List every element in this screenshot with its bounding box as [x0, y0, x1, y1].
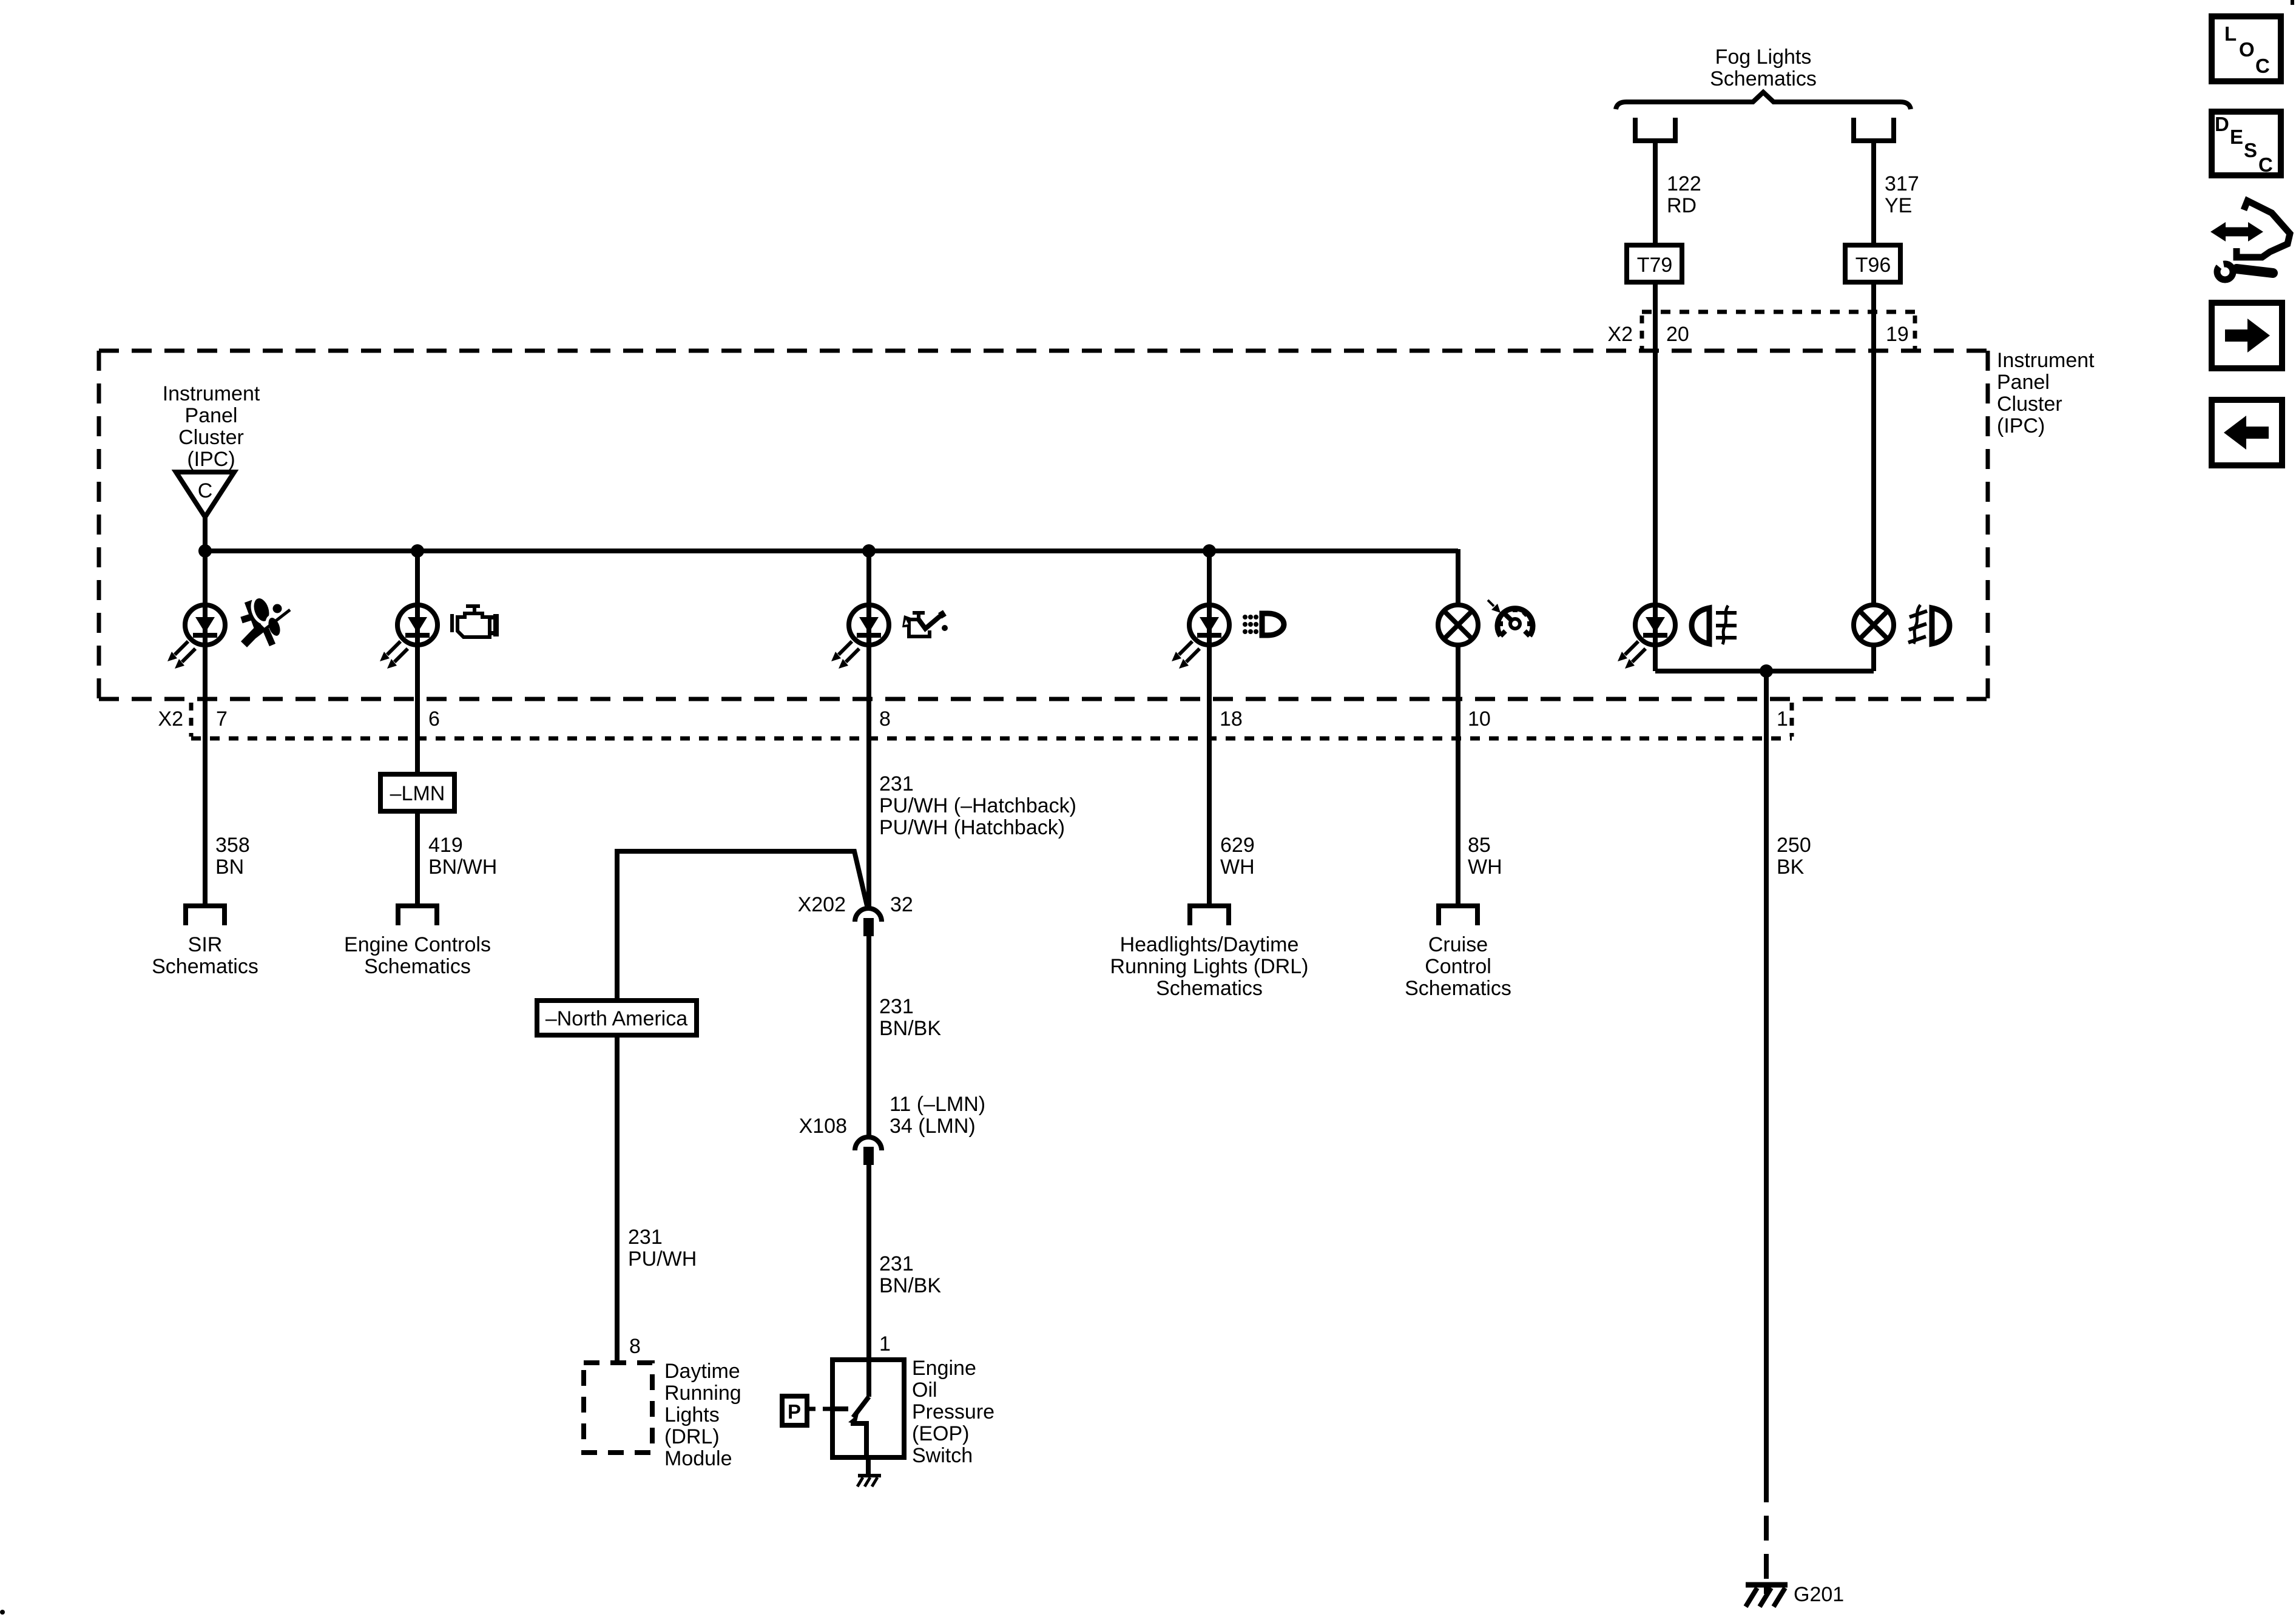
svg-text:Instrument: Instrument — [163, 382, 260, 405]
label 317 YE — [1885, 172, 1919, 217]
svg-text:Cruise: Cruise — [1428, 933, 1488, 956]
label 231 BN/BK (lower) — [879, 1252, 941, 1297]
wire fog lamp right to common node — [1871, 645, 1876, 671]
svg-text:Running Lights (DRL): Running Lights (DRL) — [1110, 955, 1309, 978]
junction node on fog return — [1760, 664, 1773, 678]
branch wire to DRL module (-North America) — [617, 851, 867, 1001]
svg-text:BN/WH: BN/WH — [428, 856, 497, 879]
wire from T79 to fog LED lamp (pin 20) — [1653, 282, 1658, 604]
junction node at SIR lamp — [198, 544, 212, 558]
svg-text:1: 1 — [879, 1332, 891, 1355]
svg-text:C: C — [2255, 55, 2270, 77]
svg-text:Lights: Lights — [664, 1403, 720, 1426]
X2 top strip left tick — [1640, 316, 1644, 349]
svg-text:7: 7 — [216, 707, 228, 731]
svg-text:629: 629 — [1220, 834, 1255, 857]
dashed continuation of ground wire — [1764, 1516, 1769, 1582]
svg-text:Oil: Oil — [912, 1379, 937, 1402]
page speck (bottom left) — [0, 1610, 5, 1615]
svg-text:P: P — [788, 1400, 801, 1423]
splice X108 (crimp) — [855, 1137, 882, 1165]
Instrument Panel Cluster (IPC) dashed box — [99, 351, 1988, 699]
terminal (to fog lights schematics, left) — [1635, 118, 1675, 141]
terminal (to SIR schematics) — [186, 906, 225, 925]
svg-text:11 (–LMN): 11 (–LMN) — [890, 1093, 985, 1116]
X2 bottom strip left tick — [189, 703, 194, 737]
terminal (to engine controls schematics) — [398, 906, 437, 925]
IPC internal bus wire — [205, 549, 1458, 553]
label SIR Schematics — [152, 933, 258, 978]
IPC label (left, inside box) — [163, 382, 260, 471]
label 629 WH — [1220, 834, 1255, 879]
svg-text:8: 8 — [879, 707, 891, 731]
wire 231 BN/BK (X108 to EOP switch) — [866, 1165, 871, 1360]
svg-text:Panel: Panel — [185, 404, 238, 427]
svg-text:231: 231 — [879, 995, 914, 1018]
label 250 BK — [1777, 834, 1811, 879]
svg-text:Fog Lights: Fog Lights — [1715, 46, 1812, 69]
svg-text:X108: X108 — [799, 1115, 847, 1138]
junction node at oil lamp — [862, 544, 876, 558]
headlight icon — [1243, 613, 1284, 635]
brace over fog light branches — [1616, 92, 1911, 109]
X2 bottom strip right tick — [1790, 703, 1794, 737]
junction node at engine lamp — [411, 544, 424, 558]
LOC navigation box — [2212, 16, 2281, 81]
label 122 RD — [1667, 172, 1701, 217]
svg-text:85: 85 — [1468, 834, 1491, 857]
svg-text:WH: WH — [1220, 856, 1255, 879]
ground below EOP switch (chassis) — [857, 1457, 881, 1487]
svg-text:–North America: –North America — [545, 1007, 687, 1030]
svg-text:BN/BK: BN/BK — [879, 1017, 941, 1040]
connector C triangle (IPC internal connector) — [176, 472, 234, 517]
label 231 PU/WH — [628, 1226, 697, 1271]
svg-text:X2: X2 — [1607, 323, 1633, 346]
wire 317 YE — [1871, 143, 1876, 245]
label 85 WH — [1468, 834, 1502, 879]
svg-text:1: 1 — [1777, 707, 1788, 731]
svg-text:Control: Control — [1425, 955, 1491, 978]
svg-text:20: 20 — [1666, 323, 1689, 346]
wire 250 BK down from node through X2 pin 1 — [1764, 671, 1769, 1502]
engine icon — [450, 604, 499, 637]
dashed link P to EOP switch — [807, 1407, 832, 1411]
svg-text:Engine Controls: Engine Controls — [344, 933, 491, 956]
splice box -North America — [537, 1001, 697, 1035]
svg-text:BN: BN — [215, 856, 244, 879]
svg-text:Headlights/Daytime: Headlights/Daytime — [1120, 933, 1299, 956]
fog lamp icon (right, lamp with slanted rays) — [1908, 605, 1950, 644]
engine (MIL) indicator LED lamp — [380, 551, 437, 774]
svg-text:O: O — [2239, 38, 2255, 61]
svg-text:BK: BK — [1777, 856, 1805, 879]
svg-text:(IPC): (IPC) — [187, 448, 235, 471]
label 11 (-LMN) / 34 (LMN) — [890, 1093, 985, 1138]
X2 connector strip (bottom of IPC box) dotted lower boundary — [191, 737, 1792, 741]
svg-text:Running: Running — [664, 1382, 741, 1405]
svg-text:Instrument: Instrument — [1997, 349, 2095, 372]
terminal (to cruise control schematics) — [1439, 906, 1477, 925]
svg-text:Cluster: Cluster — [1997, 393, 2062, 416]
svg-text:PU/WH (–Hatchback): PU/WH (–Hatchback) — [879, 794, 1076, 817]
X2 top strip right tick — [1913, 316, 1917, 349]
splice box T96 — [1845, 245, 1900, 282]
IPC box top edge — [99, 349, 1988, 353]
Engine Oil Pressure (EOP) Switch box — [832, 1360, 904, 1457]
splice box T79 — [1627, 245, 1682, 282]
label 231 BN/BK (upper) — [879, 995, 941, 1040]
svg-text:Schematics: Schematics — [152, 955, 258, 978]
DESC navigation box — [2212, 112, 2281, 176]
airbag indicator LED lamp — [167, 551, 225, 903]
svg-text:Module: Module — [664, 1447, 732, 1470]
Fog Lights Schematics heading — [1710, 46, 1817, 90]
svg-text:Pressure: Pressure — [912, 1400, 994, 1423]
headlight (DRL) indicator LED lamp — [1172, 551, 1229, 903]
svg-text:(DRL): (DRL) — [664, 1425, 720, 1448]
label 419 BN/WH — [428, 834, 497, 879]
X2 connector strip (top right, fog lights) dotted upper boundary — [1642, 310, 1915, 314]
EOP switch internals — [832, 1360, 869, 1457]
svg-text:(EOP): (EOP) — [912, 1422, 969, 1445]
svg-text:RD: RD — [1667, 194, 1697, 217]
svg-text:8: 8 — [629, 1335, 641, 1358]
svg-text:T96: T96 — [1855, 254, 1891, 277]
svg-text:S: S — [2244, 139, 2257, 161]
page speck (top right) — [2291, 0, 2294, 5]
Daytime Running Lights (DRL) Module dashed box — [584, 1363, 652, 1453]
svg-text:Daytime: Daytime — [664, 1360, 740, 1383]
svg-text:32: 32 — [890, 893, 913, 916]
svg-text:PU/WH: PU/WH — [628, 1247, 697, 1271]
IPC label (right, outside box) — [1997, 349, 2095, 437]
label Engine Oil Pressure (EOP) Switch — [912, 1357, 994, 1467]
splice X202 (crimp) — [855, 908, 882, 936]
svg-text:L: L — [2224, 22, 2237, 45]
IPC box left edge — [97, 351, 101, 699]
svg-text:T79: T79 — [1637, 254, 1673, 277]
wire 419 BN/WH below -LMN box — [415, 811, 420, 903]
svg-text:YE: YE — [1885, 194, 1912, 217]
wire from connector C to bus — [203, 517, 208, 551]
label Daytime Running Lights (DRL) Module — [664, 1360, 741, 1470]
svg-text:358: 358 — [215, 834, 250, 857]
back arrow navigation box — [2212, 400, 2282, 465]
terminal (to fog lights schematics, right) — [1854, 118, 1894, 141]
common fog return wire (horizontal) — [1655, 669, 1874, 673]
svg-text:C: C — [198, 479, 213, 502]
terminal (to headlights/DRL schematics) — [1190, 906, 1229, 925]
svg-text:PU/WH (Hatchback): PU/WH (Hatchback) — [879, 816, 1065, 839]
svg-text:317: 317 — [1885, 172, 1919, 195]
fog lamp icon (left, lamp with horizontal rays) — [1692, 606, 1737, 644]
svg-text:Schematics: Schematics — [1710, 67, 1817, 90]
oil pressure indicator LED lamp — [831, 551, 889, 907]
cruise indicator lamp (crossed circle) — [1438, 549, 1478, 903]
svg-text:Schematics: Schematics — [1156, 977, 1263, 1000]
fog indicator LED lamp — [1618, 605, 1675, 669]
svg-text:34 (LMN): 34 (LMN) — [890, 1115, 976, 1138]
svg-text:Cluster: Cluster — [178, 426, 244, 449]
svg-text:WH: WH — [1468, 856, 1502, 879]
splice box -LMN on wire 419 — [380, 774, 454, 811]
svg-text:–LMN: –LMN — [390, 782, 445, 805]
forward arrow navigation box — [2212, 303, 2282, 368]
svg-text:10: 10 — [1468, 707, 1491, 731]
wire 231 PU/WH below -North America box — [615, 1035, 620, 1363]
wire from T96 to fog lamp (pin 19) — [1871, 282, 1876, 604]
fog lamp (right, crossed-circle lamp) — [1854, 605, 1894, 645]
svg-text:X202: X202 — [798, 893, 846, 916]
svg-text:6: 6 — [428, 707, 440, 731]
svg-text:D: D — [2215, 113, 2229, 135]
svg-text:BN/BK: BN/BK — [879, 1274, 941, 1297]
svg-text:X2: X2 — [158, 707, 183, 731]
svg-text:Engine: Engine — [912, 1357, 976, 1380]
wire 231 BN/BK (X202 to X108) — [866, 936, 871, 1136]
svg-text:Panel: Panel — [1997, 371, 2050, 394]
wire 122 RD — [1653, 143, 1658, 245]
oil can icon — [902, 611, 948, 636]
svg-text:122: 122 — [1667, 172, 1701, 195]
svg-text:231: 231 — [879, 1252, 914, 1275]
IPC box bottom edge — [99, 697, 1988, 701]
ground G201 (chassis) — [1746, 1585, 1788, 1607]
label Headlights/Daytime Running Lights (DRL) Schematics — [1110, 933, 1309, 1000]
svg-text:Schematics: Schematics — [364, 955, 471, 978]
svg-text:231: 231 — [628, 1226, 663, 1249]
label 358 BN — [215, 834, 250, 879]
svg-text:E: E — [2230, 126, 2243, 148]
svg-text:250: 250 — [1777, 834, 1811, 857]
svg-text:SIR: SIR — [188, 933, 223, 956]
cruise (speedometer) icon — [1488, 600, 1533, 636]
airbag icon — [241, 595, 290, 645]
shortcut (arrow + wrench) icon — [2210, 201, 2290, 280]
label Engine Controls Schematics — [344, 933, 491, 978]
IPC box right edge — [1986, 351, 1990, 699]
svg-text:18: 18 — [1220, 707, 1243, 731]
wire fog LED to common node — [1653, 645, 1658, 671]
junction node at headlight lamp — [1203, 544, 1216, 558]
svg-text:Schematics: Schematics — [1405, 977, 1511, 1000]
pressure symbol P box — [782, 1396, 807, 1425]
svg-text:Switch: Switch — [912, 1444, 973, 1467]
svg-text:231: 231 — [879, 772, 914, 795]
label 231 PU/WH hatchback variants — [879, 772, 1076, 839]
svg-text:C: C — [2258, 154, 2273, 176]
label Cruise Control Schematics — [1405, 933, 1511, 1000]
svg-text:G201: G201 — [1794, 1583, 1844, 1606]
svg-text:19: 19 — [1886, 323, 1909, 346]
svg-text:(IPC): (IPC) — [1997, 414, 2045, 437]
svg-text:419: 419 — [428, 834, 463, 857]
